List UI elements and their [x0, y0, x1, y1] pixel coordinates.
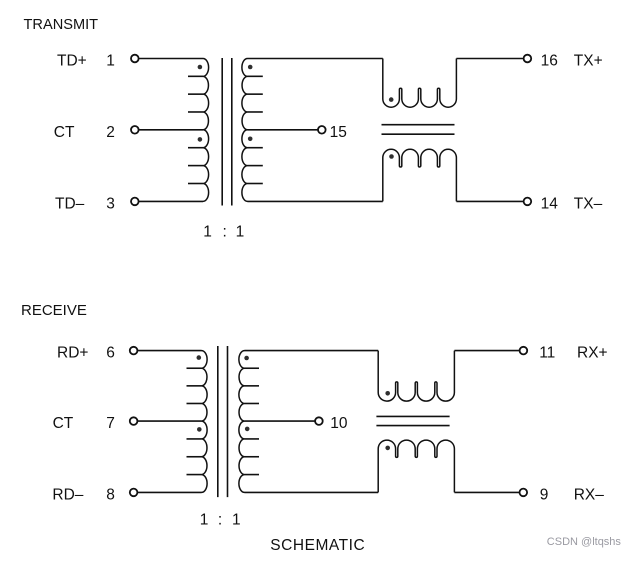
svg-text::: : — [223, 224, 227, 241]
svg-text:16: 16 — [541, 53, 558, 70]
svg-text:8: 8 — [106, 486, 115, 503]
svg-text:10: 10 — [330, 415, 348, 432]
svg-text:RD+: RD+ — [57, 345, 88, 362]
svg-text:RX–: RX– — [574, 486, 605, 503]
svg-text:TD–: TD– — [55, 195, 85, 212]
svg-text:CT: CT — [54, 124, 75, 141]
svg-text:15: 15 — [330, 124, 347, 141]
svg-text:1: 1 — [203, 224, 212, 241]
svg-text:9: 9 — [540, 486, 549, 503]
svg-text::: : — [218, 511, 222, 528]
svg-text:RECEIVE: RECEIVE — [21, 302, 87, 319]
svg-text:2: 2 — [106, 124, 115, 141]
svg-text:TX+: TX+ — [574, 53, 603, 70]
svg-text:1: 1 — [232, 511, 241, 528]
svg-text:TD+: TD+ — [57, 53, 87, 70]
svg-text:14: 14 — [541, 195, 559, 212]
svg-text:6: 6 — [106, 345, 115, 362]
svg-text:CT: CT — [53, 415, 74, 432]
svg-text:TRANSMIT: TRANSMIT — [24, 17, 99, 33]
svg-text:TX–: TX– — [574, 195, 603, 212]
svg-text:1: 1 — [200, 511, 209, 528]
svg-text:3: 3 — [106, 195, 115, 212]
svg-text:7: 7 — [106, 415, 115, 432]
svg-text:1: 1 — [236, 224, 245, 241]
svg-text:1: 1 — [106, 53, 115, 70]
svg-text:SCHEMATIC: SCHEMATIC — [270, 537, 365, 554]
svg-text:RD–: RD– — [52, 486, 83, 503]
svg-text:11: 11 — [539, 345, 555, 362]
svg-text:CSDN @ltqshs: CSDN @ltqshs — [547, 536, 622, 548]
svg-text:RX+: RX+ — [577, 345, 608, 362]
